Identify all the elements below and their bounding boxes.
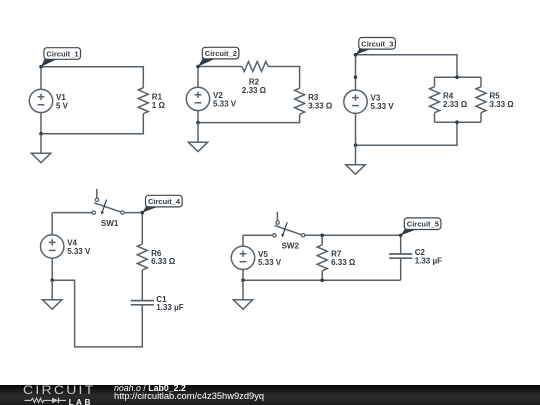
svg-text:3.33 Ω: 3.33 Ω (490, 100, 515, 109)
svg-text:SW1: SW1 (101, 219, 119, 228)
svg-text:Circuit_4: Circuit_4 (148, 197, 181, 206)
svg-text:6.33 Ω: 6.33 Ω (151, 257, 176, 266)
svg-text:5.33 V: 5.33 V (67, 247, 91, 256)
svg-text:2.33 Ω: 2.33 Ω (242, 86, 267, 95)
svg-text:5 V: 5 V (56, 101, 69, 110)
svg-text:3.33 Ω: 3.33 Ω (308, 101, 333, 110)
svg-text:5.33 V: 5.33 V (258, 258, 282, 267)
svg-text:Circuit_3: Circuit_3 (361, 39, 393, 48)
svg-text:1.33 µF: 1.33 µF (415, 257, 442, 266)
svg-text:5.33 V: 5.33 V (371, 102, 395, 111)
svg-text:SW2: SW2 (282, 242, 300, 251)
svg-text:1.33 µF: 1.33 µF (156, 303, 183, 312)
svg-text:Circuit_1: Circuit_1 (46, 50, 78, 59)
svg-text:Circuit_2: Circuit_2 (205, 49, 237, 58)
svg-text:2.33 Ω: 2.33 Ω (443, 100, 468, 109)
svg-text:5.33 V: 5.33 V (213, 99, 237, 108)
svg-text:1 Ω: 1 Ω (152, 101, 166, 110)
svg-text:6.33 Ω: 6.33 Ω (331, 258, 356, 267)
svg-text:Circuit_5: Circuit_5 (407, 220, 439, 229)
